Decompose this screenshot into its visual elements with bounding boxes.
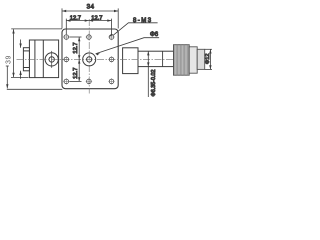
right view adapter plate — [123, 48, 138, 74]
svg-text:12.7: 12.7 — [73, 42, 79, 53]
8 small holes grid — [63, 34, 115, 85]
label 8-M3 with leader — [110, 23, 158, 37]
dimension 12.7 / 12.7 chain (top) — [66, 19, 111, 35]
hole top-left — [64, 35, 69, 40]
side view set screw circle (concentric target) — [45, 51, 58, 68]
dimension Φ12 (right end) — [205, 49, 212, 69]
svg-text:39: 39 — [5, 55, 12, 64]
svg-text:8-M3: 8-M3 — [133, 18, 153, 24]
side view barrel diameter dimension arrows — [19, 40, 21, 79]
svg-text:Φ6: Φ6 — [150, 32, 159, 38]
svg-text:12.7: 12.7 — [70, 15, 81, 21]
collar — [189, 47, 197, 73]
dimension line B (overall height 39) x=7.3 — [6, 66, 63, 89]
center hole (two concentric circles) — [83, 53, 96, 66]
dimension line A (block height) x=13.5 — [11, 29, 29, 77]
barrel diameter dimension Φ6.35 — [147, 51, 149, 97]
knurled knob — [174, 45, 190, 75]
front view square plate — [62, 29, 118, 89]
top extension line (to square top) — [11, 28, 62, 30]
dimension 12.7 / 12.7 chain (vertical inside plate) — [70, 37, 82, 81]
horizontal centerline — [17, 58, 174, 60]
label Φ6 with leader — [96, 38, 160, 56]
barrel step joint — [162, 51, 164, 66]
svg-text:12.7: 12.7 — [73, 68, 79, 79]
hole mid-left — [64, 57, 69, 62]
right view lens barrel — [138, 51, 174, 66]
label 39 (rotated) — [5, 55, 12, 64]
side view main block — [29, 40, 58, 78]
svg-text:Φ12: Φ12 — [205, 53, 211, 64]
svg-text:Φ6.35-0.02: Φ6.35-0.02 — [151, 69, 157, 96]
hole mid-right — [109, 57, 114, 62]
tip — [197, 49, 205, 69]
hole top-right — [109, 35, 114, 40]
hole bot-right — [109, 79, 114, 84]
svg-text:12.7: 12.7 — [91, 15, 102, 21]
side view barrel protrusion — [23, 48, 29, 71]
hole bot-left — [64, 79, 69, 84]
svg-text:34: 34 — [87, 3, 95, 10]
hole top-mid — [87, 35, 92, 40]
vertical centerline — [88, 19, 90, 94]
hole bot-mid — [87, 79, 92, 84]
dimension 34 (top) — [62, 8, 118, 28]
